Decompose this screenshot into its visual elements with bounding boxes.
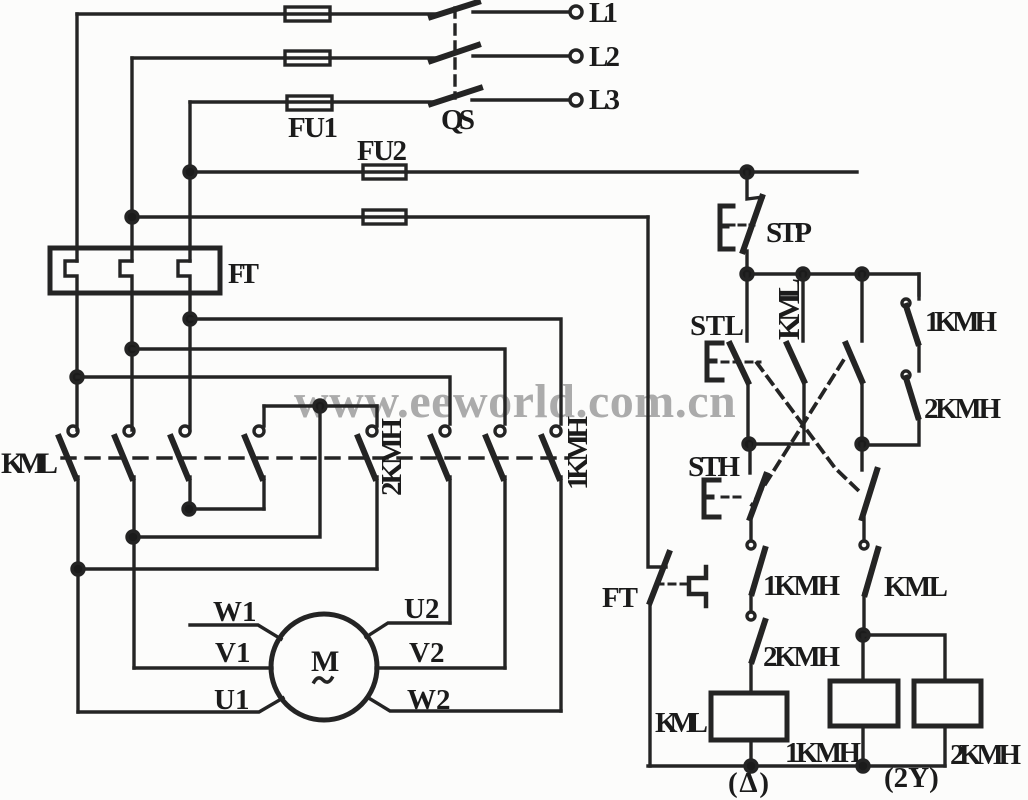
wire control bus [747, 274, 919, 295]
node FU2 line1 tap [184, 166, 196, 178]
svg-text:(2Y): (2Y) [884, 762, 939, 794]
svg-text:2KMH: 2KMH [376, 418, 408, 496]
svg-text:FU1: FU1 [288, 112, 338, 144]
motor M [271, 614, 377, 720]
contact 2KMH left col [747, 612, 755, 620]
contactor contact 4 [262, 406, 265, 426]
contact 2KMH lower right [902, 371, 910, 379]
FT heater phase B [120, 261, 132, 430]
node right col [856, 438, 868, 450]
svg-text:M: M [311, 645, 339, 678]
contactor 1KMH contact 8 [551, 426, 561, 436]
wire U1 [78, 698, 283, 712]
node STH top [743, 438, 755, 450]
wire to contact c6 [77, 377, 450, 424]
svg-text:KML: KML [655, 707, 708, 739]
contact FT control [648, 217, 666, 567]
svg-text:2KMH: 2KMH [950, 739, 1021, 771]
wire mid vertical [133, 406, 320, 537]
contactor 2KMH contact 5 [375, 406, 378, 426]
node c4 join [183, 503, 195, 515]
node KML coil bottom [745, 760, 757, 772]
node bus-right [856, 268, 868, 280]
svg-text:U1: U1 [214, 684, 249, 716]
interlock dashes [722, 361, 760, 364]
QS dashed link [453, 8, 456, 98]
node coil split [857, 629, 869, 641]
node 1KMH coil bottom [857, 760, 869, 772]
pushbutton STP [747, 172, 763, 199]
contact KML right col [860, 541, 868, 549]
wire phase B vertical [130, 58, 133, 261]
fuse FU2 line1 [363, 165, 406, 179]
svg-text:FT: FT [602, 582, 638, 614]
contactor KML contact 1 [68, 426, 78, 436]
svg-text:V1: V1 [215, 637, 250, 669]
coil 1KMH [830, 681, 898, 726]
dashed interlock power row [62, 456, 568, 459]
fuse FU1 phase1 [285, 7, 330, 21]
svg-text:U2: U2 [404, 593, 439, 625]
thermal relay FT box [50, 248, 220, 293]
terminal L3 [570, 94, 582, 106]
wire bottom control [648, 764, 945, 767]
node bus-KML [797, 268, 809, 280]
contactor KML contact 2 [124, 426, 134, 436]
svg-text:STL: STL [690, 310, 744, 342]
svg-text:(Δ): (Δ) [728, 767, 769, 799]
svg-text:1KMH: 1KMH [763, 570, 840, 602]
svg-text:V2: V2 [409, 637, 444, 669]
node on link [314, 400, 326, 412]
wire top link c4-c5 [264, 404, 377, 407]
terminal L1 [570, 6, 582, 18]
coil KML [711, 693, 787, 740]
node FU2 line2 tap [126, 211, 138, 223]
svg-text:W1: W1 [213, 596, 257, 628]
svg-text:FT: FT [228, 258, 259, 290]
switch QS blade phase2 [431, 45, 478, 61]
wire c4 bottom to phase C [189, 507, 264, 510]
node bus-STL [741, 268, 753, 280]
node phase C to 1KMH line [184, 313, 196, 325]
wire to contact c8 [190, 319, 561, 424]
wire phase C vertical [188, 102, 191, 261]
switch QS blade phase1 [431, 2, 478, 17]
fuse FU1 phase3 [287, 96, 332, 110]
svg-text:STP: STP [766, 217, 812, 249]
wire W1 [190, 625, 281, 639]
contact column mid [860, 274, 863, 341]
contactor 1KMH contact 7 [495, 426, 505, 436]
contact 1KMH upper right [917, 274, 920, 299]
svg-text:www.eeworld.com.cn: www.eeworld.com.cn [294, 375, 736, 428]
svg-text:QS: QS [441, 104, 475, 136]
contact 1KMH left col [747, 541, 755, 549]
coil 2KMH [914, 681, 981, 726]
node STP tap [741, 166, 753, 178]
wire phase L1 top [77, 12, 569, 14]
FT heater phase C [178, 261, 190, 430]
svg-text:KML: KML [884, 571, 948, 603]
node phase B to 1KMH line [126, 343, 138, 355]
contactor 1KMH contact 6 [440, 426, 450, 436]
blade right STH row [860, 444, 863, 470]
svg-text:FU2: FU2 [357, 135, 407, 167]
node c5 join [72, 563, 84, 575]
wire V1 [134, 666, 272, 669]
svg-text:L2: L2 [589, 41, 620, 73]
switch QS blade phase3 [431, 88, 480, 104]
svg-text:L3: L3 [589, 84, 620, 116]
wire V2 [376, 666, 505, 669]
wire FU2 line2 [132, 215, 648, 218]
fuse FU1 phase2 [285, 51, 330, 65]
wire c5 bottom to phase A [78, 567, 377, 570]
wire phase L3 [190, 100, 569, 102]
fuse FU2 line2 [363, 210, 406, 224]
svg-text:1KMH: 1KMH [562, 416, 594, 490]
wire W2 [367, 697, 561, 711]
terminal L2 [570, 50, 582, 62]
svg-text:2KMH: 2KMH [924, 393, 1001, 425]
svg-text:1KMH: 1KMH [925, 306, 997, 338]
wire FU2 line1 [190, 170, 857, 173]
svg-text:1KMH: 1KMH [785, 737, 861, 769]
wire phase A vertical [75, 14, 78, 261]
wire phase L2 [132, 56, 569, 58]
svg-text:KML: KML [771, 278, 806, 340]
svg-text:W2: W2 [407, 684, 451, 716]
wire U2 [366, 623, 450, 637]
wire to contact c7 [132, 349, 505, 424]
node mid join [127, 531, 139, 543]
svg-text:KML: KML [1, 447, 58, 480]
contactor KML contact 3 [180, 426, 190, 436]
wire junction row left [749, 442, 808, 445]
svg-text:L1: L1 [589, 0, 618, 29]
FT heater phase A [65, 261, 77, 430]
svg-text:2KMH: 2KMH [763, 641, 840, 673]
node phase A to 1KMH line [71, 371, 83, 383]
